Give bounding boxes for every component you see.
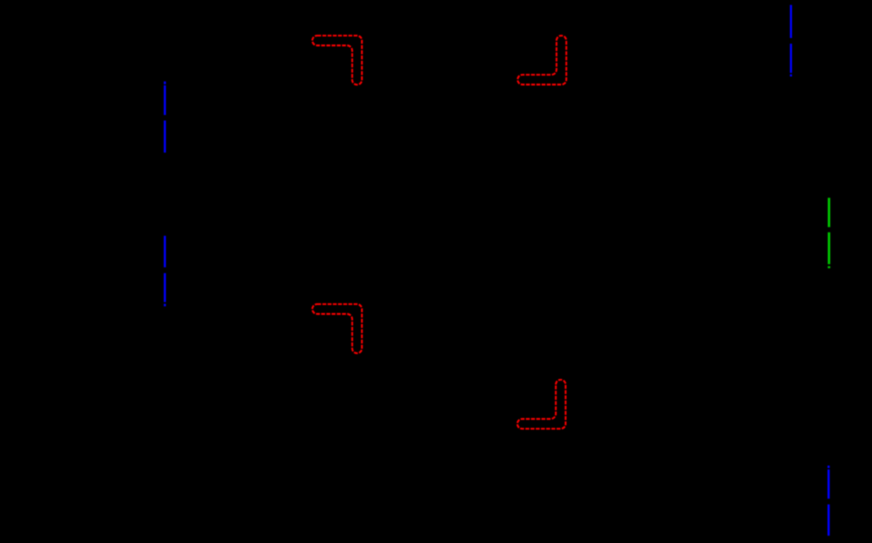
net wire N2: blue dashed vertical wire, left lower segment: [164, 236, 166, 306]
net wire N1: blue dashed vertical wire, left upper segment: [164, 81, 166, 152]
net wire N3: blue dashed vertical wire, top-right: [790, 5, 792, 77]
wire highlight H3: red dashed outline of L-wire, bottom-left (right then down): [312, 304, 362, 353]
net wire N5: blue dashed vertical wire, bottom-right: [828, 466, 830, 536]
wire highlight H2: red dashed outline of L-wire, top-middle (down then left): [518, 36, 567, 85]
wire highlight H1: red dashed outline of L-wire, top-left (right then down): [312, 36, 362, 85]
net wire N4: green dashed vertical wire, right: [828, 198, 830, 268]
wire highlight H4: red dashed outline of L-wire, bottom-middle (down then left): [517, 380, 565, 429]
